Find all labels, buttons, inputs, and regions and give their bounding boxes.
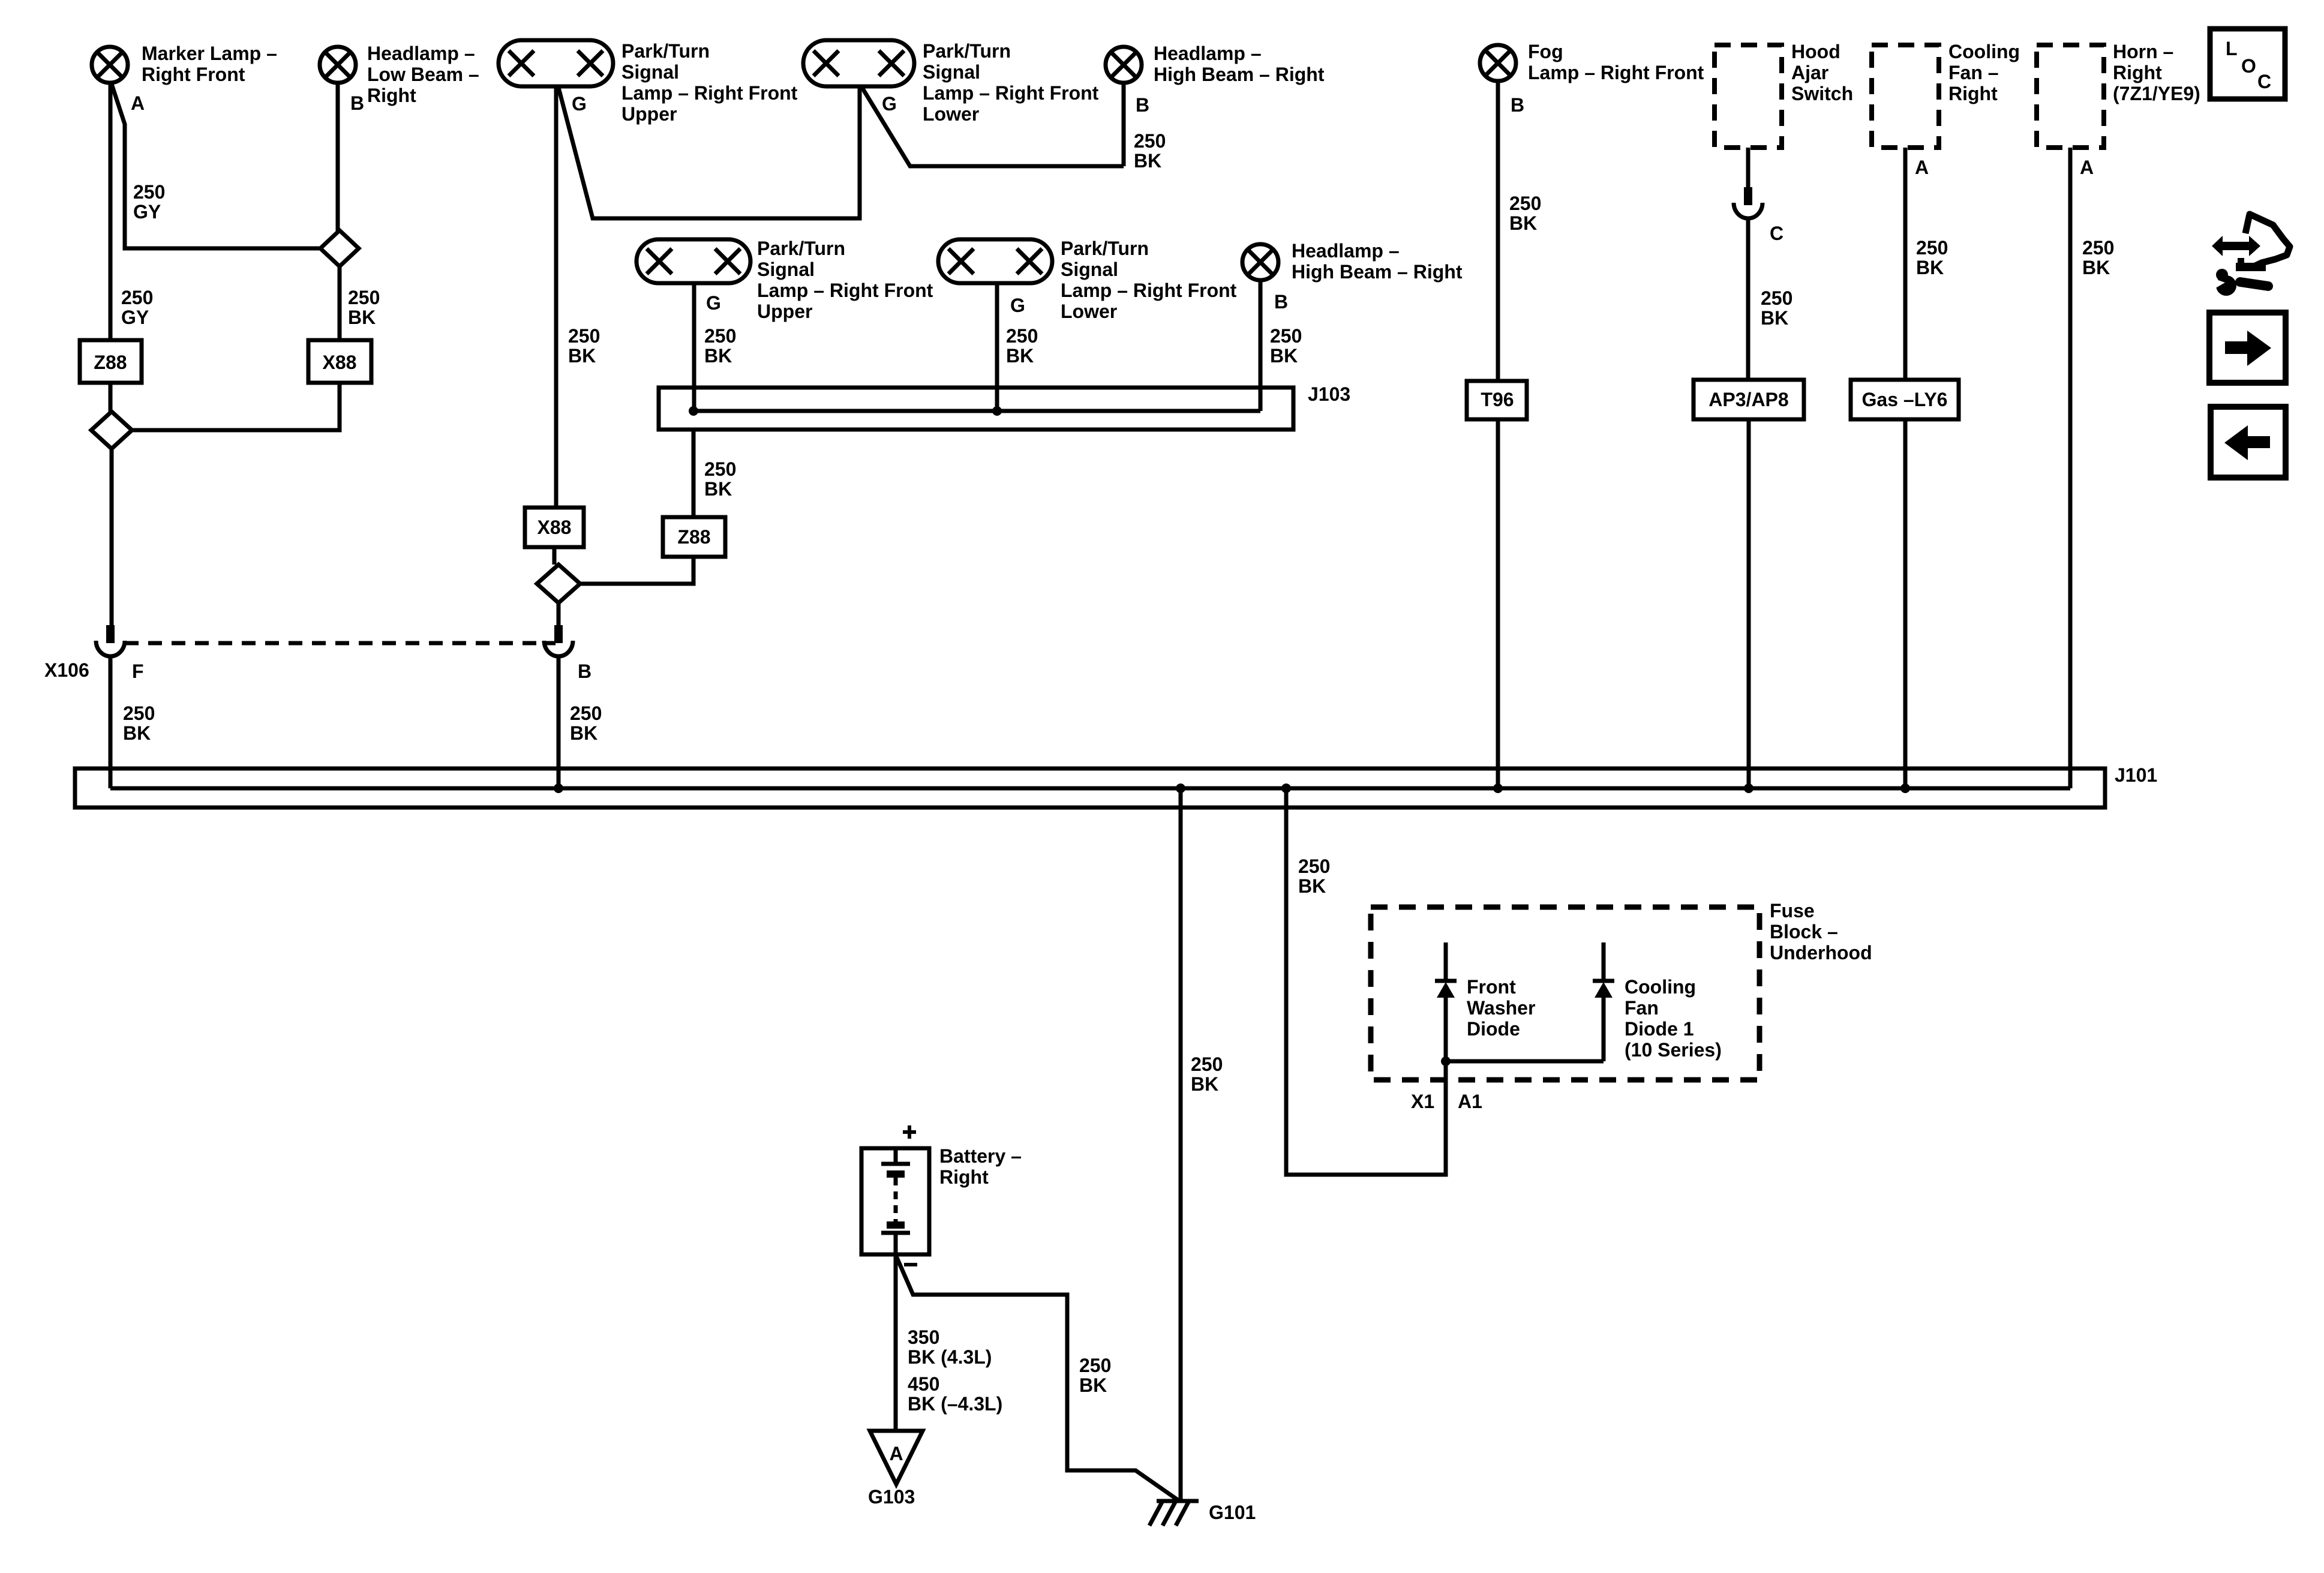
wire battery negative to G101 (250 BK)	[896, 1256, 1179, 1501]
junction at J103 and E6 wire	[689, 406, 698, 416]
wire C to AP3/AP8 (250 BK)	[1746, 217, 1750, 380]
svg-text:G103: G103	[868, 1486, 915, 1508]
svg-text:Signal: Signal	[621, 61, 679, 83]
svg-text:C: C	[1770, 223, 1783, 244]
junction J101/G101 wire	[1176, 784, 1185, 793]
svg-text:T96: T96	[1481, 389, 1514, 410]
svg-text:Lamp – Right Front: Lamp – Right Front	[757, 280, 933, 301]
svg-text:Z88: Z88	[94, 352, 127, 373]
svg-text:BK: BK	[704, 345, 732, 367]
svg-text:250: 250	[1191, 1053, 1223, 1075]
svg-text:Ajar: Ajar	[1791, 62, 1828, 83]
diode CR2 Cooling Fan Diode 1 (10 Series)	[1602, 942, 1606, 979]
svg-text:(10 Series): (10 Series)	[1625, 1039, 1722, 1061]
legend box with right arrow	[2209, 313, 2286, 383]
wire low beam B to diamond	[336, 83, 340, 231]
svg-text:J101: J101	[2115, 764, 2157, 786]
svg-text:BK: BK	[570, 722, 597, 744]
svg-text:BK: BK	[1761, 307, 1788, 329]
svg-text:A: A	[1915, 157, 1929, 178]
ground G101	[1157, 1499, 1199, 1503]
lamp E8 Headlamp High Beam - Right (row2)	[1242, 244, 1278, 280]
splice diamond S3	[537, 565, 580, 603]
svg-text:Upper: Upper	[621, 103, 677, 125]
svg-text:BK: BK	[2082, 257, 2110, 278]
svg-text:250: 250	[1509, 193, 1541, 214]
wire horn A to J101 (250 BK)	[2068, 148, 2073, 788]
wire Gas-LY6 to J101	[1903, 419, 1908, 788]
wire diamond S3 down to X106 pin B	[557, 603, 561, 625]
svg-text:Low Beam –: Low Beam –	[367, 64, 479, 85]
svg-text:Park/Turn: Park/Turn	[621, 40, 710, 62]
svg-text:Fan: Fan	[1625, 997, 1659, 1019]
svg-text:A: A	[131, 92, 145, 114]
wire J101 to fuse block X1-A1 (250 BK)	[1286, 788, 1446, 1175]
horn H1 Horn - Right (dashed)	[2037, 45, 2104, 148]
wire E6 G to J103 (250 BK)	[692, 283, 696, 411]
svg-text:C: C	[2257, 71, 2271, 92]
connector pin C	[1744, 187, 1752, 205]
svg-text:Block –: Block –	[1770, 921, 1838, 942]
svg-text:BK: BK	[123, 722, 151, 744]
battery G-BAT Battery - Right	[861, 1148, 929, 1254]
svg-text:Hood: Hood	[1791, 41, 1840, 62]
svg-text:Lamp – Right Front: Lamp – Right Front	[923, 82, 1099, 104]
svg-text:Marker Lamp –: Marker Lamp –	[142, 43, 277, 64]
svg-text:Right Front: Right Front	[142, 64, 245, 85]
svg-text:X88: X88	[323, 352, 357, 373]
legend LOC box	[2210, 29, 2285, 99]
svg-text:X88: X88	[538, 517, 572, 538]
svg-text:GY: GY	[121, 307, 149, 328]
svg-text:Switch: Switch	[1791, 83, 1853, 104]
wire X88 to diamond S3	[553, 547, 557, 565]
junction J101/T96 wire	[1493, 784, 1503, 793]
connector T96	[1467, 381, 1527, 419]
svg-text:Right: Right	[2113, 62, 2162, 83]
svg-text:B: B	[1136, 94, 1149, 116]
svg-text:250: 250	[704, 325, 736, 347]
wire X106 F to J101 (250 BK)	[109, 655, 113, 788]
svg-text:Right: Right	[367, 85, 416, 106]
motor M1 Cooling Fan - Right (dashed)	[1872, 45, 1939, 148]
svg-text:Gas –LY6: Gas –LY6	[1862, 389, 1948, 410]
svg-text:G: G	[882, 93, 897, 115]
svg-text:250: 250	[1270, 325, 1302, 347]
wire joining diodes inside fuse block	[1446, 1059, 1604, 1064]
fuse block - underhood (dashed box)	[1371, 907, 1759, 1080]
svg-text:250: 250	[348, 287, 380, 308]
splice diamond S2	[91, 412, 132, 449]
svg-text:Right: Right	[1948, 83, 1998, 104]
wire fog B to T96 (250 BK)	[1496, 81, 1500, 381]
svg-text:Battery –: Battery –	[939, 1145, 1022, 1167]
svg-text:Z88: Z88	[677, 526, 710, 548]
svg-text:Signal: Signal	[757, 259, 815, 280]
svg-text:250: 250	[570, 703, 602, 724]
svg-text:Headlamp –: Headlamp –	[1292, 240, 1400, 262]
svg-text:Park/Turn: Park/Turn	[1061, 238, 1149, 259]
svg-text:Park/Turn: Park/Turn	[923, 40, 1011, 62]
svg-text:350: 350	[908, 1326, 939, 1348]
connector X106 pin B	[554, 625, 563, 643]
svg-text:250: 250	[1134, 130, 1166, 152]
connector Z88 (second, under J103)	[663, 517, 725, 557]
wire diamond S3 to Z88 (second)	[580, 557, 693, 584]
svg-text:250: 250	[123, 703, 155, 724]
wire diamond to X88 (250 BK)	[338, 266, 342, 340]
svg-text:O: O	[2241, 55, 2256, 77]
wire AP3/AP8 to J101	[1747, 419, 1751, 788]
svg-text:B: B	[1511, 94, 1524, 116]
svg-text:BK: BK	[1916, 257, 1944, 278]
wire E3 G down to X88 (250 BK)	[554, 86, 559, 508]
legend service icon (hand with arrow and wrench)	[2212, 236, 2260, 256]
lamp E6 Park/Turn Signal Lamp - Right Front Upper (row2)	[636, 239, 750, 283]
connector X106 pin F	[106, 625, 115, 643]
svg-text:B: B	[578, 661, 591, 682]
svg-text:G101: G101	[1209, 1502, 1256, 1523]
svg-text:Upper: Upper	[757, 301, 812, 322]
wire cooling fan A to Gas-LY6 (250 BK)	[1903, 148, 1908, 380]
svg-text:X1: X1	[1411, 1091, 1434, 1112]
svg-text:BK (4.3L): BK (4.3L)	[908, 1346, 992, 1368]
wire E7 G to J103 (250 BK)	[995, 283, 999, 411]
svg-text:BK: BK	[1079, 1374, 1107, 1396]
svg-text:B: B	[350, 92, 364, 114]
svg-text:BK: BK	[1134, 150, 1161, 172]
wire J101 to G101 ground (250 BK)	[1179, 788, 1183, 1500]
svg-text:Fog: Fog	[1528, 41, 1563, 62]
svg-text:J103: J103	[1308, 383, 1350, 405]
svg-text:L: L	[2226, 38, 2238, 59]
svg-text:BK: BK	[348, 307, 376, 328]
svg-text:Signal: Signal	[1061, 259, 1118, 280]
junction of diode wires	[1441, 1056, 1451, 1066]
svg-text:Cooling: Cooling	[1948, 41, 2020, 62]
ground G103	[870, 1431, 923, 1484]
svg-text:250: 250	[1298, 855, 1330, 877]
wire Z88 up to J103 (250 BK)	[692, 430, 696, 517]
svg-text:250: 250	[1761, 287, 1792, 309]
svg-text:Lamp – Right Front: Lamp – Right Front	[1528, 62, 1704, 83]
wire diamond S2 to X88 bottom	[132, 383, 340, 430]
svg-text:250: 250	[1079, 1355, 1111, 1376]
svg-text:BK: BK	[1270, 345, 1298, 367]
svg-text:Diode: Diode	[1467, 1018, 1520, 1040]
wire hood ajar switch to connector C	[1746, 148, 1750, 187]
svg-text:GY: GY	[133, 201, 161, 223]
svg-text:BK: BK	[1509, 212, 1537, 234]
lamp E5 Headlamp High Beam - Right (row1)	[1106, 47, 1142, 83]
legend box with left arrow	[2211, 407, 2286, 478]
lamp E7 Park/Turn Signal Lamp - Right Front Lower (row2)	[938, 239, 1052, 283]
svg-text:Lower: Lower	[923, 103, 979, 125]
connector AP3/AP8	[1694, 380, 1804, 419]
svg-text:Signal: Signal	[923, 61, 980, 83]
svg-text:A: A	[889, 1443, 903, 1464]
svg-text:F: F	[132, 661, 144, 682]
junction J101/fuse block wire	[1281, 784, 1291, 793]
svg-text:G: G	[706, 292, 721, 314]
lamp E2 Headlamp Low Beam - Right	[320, 47, 356, 83]
svg-text:BK: BK	[704, 478, 732, 500]
wire marker lamp A to Z88 (250 GY)	[109, 83, 113, 340]
svg-text:450: 450	[908, 1373, 939, 1395]
svg-text:BK (–4.3L): BK (–4.3L)	[908, 1393, 1002, 1415]
svg-text:Washer: Washer	[1467, 997, 1535, 1019]
svg-text:BK: BK	[568, 345, 596, 367]
lamp E1 Marker Lamp - Right Front	[92, 47, 128, 83]
svg-text:250: 250	[133, 181, 165, 203]
wire Z88 to diamond S2	[109, 383, 113, 412]
connector Z88	[80, 340, 142, 383]
svg-text:BK: BK	[1006, 345, 1034, 367]
svg-text:G: G	[1010, 295, 1025, 316]
lamp E9 Fog Lamp - Right Front	[1480, 45, 1516, 81]
wire E4 G dogleg to high beam headlamp B (250 BK)	[862, 83, 1124, 166]
svg-text:Fan –: Fan –	[1948, 62, 1999, 83]
svg-text:X106: X106	[44, 659, 89, 681]
lamp E4 Park/Turn Signal Lamp - Right Front Lower (row1)	[803, 40, 914, 86]
svg-text:Right: Right	[939, 1166, 989, 1188]
junction J101/X106-B	[554, 784, 563, 793]
wire E3 G dogleg to E4 G	[559, 86, 860, 218]
svg-text:BK: BK	[1298, 875, 1326, 897]
wire marker lamp A dogleg to splice diamond (250 GY)	[112, 84, 320, 248]
svg-text:A1: A1	[1458, 1091, 1482, 1112]
junction J101/AP3 wire	[1744, 784, 1753, 793]
svg-text:Cooling: Cooling	[1625, 976, 1696, 998]
svg-text:Horn –: Horn –	[2113, 41, 2173, 62]
svg-text:High Beam – Right: High Beam – Right	[1292, 261, 1463, 283]
connector X106 dashed body line	[125, 641, 556, 646]
svg-text:250: 250	[704, 458, 736, 480]
svg-text:Lamp – Right Front: Lamp – Right Front	[621, 82, 798, 104]
svg-text:Diode 1: Diode 1	[1625, 1018, 1694, 1040]
lamp E3 Park/Turn Signal Lamp - Right Front Upper (row1)	[499, 40, 613, 86]
svg-text:(7Z1/YE9): (7Z1/YE9)	[2113, 83, 2200, 104]
splice diamond S1	[320, 230, 359, 266]
svg-text:B: B	[1274, 291, 1288, 313]
diode CR1 Front Washer Diode	[1444, 942, 1448, 979]
svg-text:AP3/AP8: AP3/AP8	[1709, 389, 1788, 410]
svg-text:BK: BK	[1191, 1073, 1218, 1095]
wire X106 B to J101 (250 BK)	[557, 655, 561, 788]
svg-text:Lamp – Right Front: Lamp – Right Front	[1061, 280, 1237, 301]
svg-text:Headlamp –: Headlamp –	[367, 43, 475, 64]
svg-text:Front: Front	[1467, 976, 1516, 998]
svg-text:250: 250	[568, 325, 600, 347]
svg-text:G: G	[572, 93, 587, 115]
wire battery negative to G103 (350/450 BK)	[894, 1254, 898, 1431]
svg-text:Fuse: Fuse	[1770, 900, 1815, 921]
connector Gas -LY6	[1851, 380, 1959, 419]
connector X88	[308, 340, 371, 383]
svg-text:250: 250	[121, 287, 153, 308]
svg-text:Lower: Lower	[1061, 301, 1117, 322]
connector X88 (second, under E3)	[525, 508, 584, 547]
splice pack J101	[75, 769, 2105, 807]
wire T96 to J101	[1496, 419, 1500, 788]
svg-text:250: 250	[1006, 325, 1038, 347]
junction J101/Gas-LY6 wire	[1900, 784, 1910, 793]
svg-text:Headlamp –: Headlamp –	[1154, 43, 1262, 64]
splice pack J103	[659, 388, 1293, 430]
switch S4 Hood Ajar Switch (dashed)	[1715, 45, 1782, 148]
svg-text:Park/Turn: Park/Turn	[757, 238, 845, 259]
wire E8 B to J103 (250 BK)	[1259, 280, 1263, 411]
svg-text:250: 250	[2082, 237, 2114, 259]
junction at J103 and E7 wire	[992, 406, 1002, 416]
wire diamond S2 down to X106 pin F	[110, 449, 114, 625]
svg-text:250: 250	[1916, 237, 1948, 259]
svg-text:Underhood: Underhood	[1770, 942, 1872, 963]
svg-text:A: A	[2080, 157, 2094, 178]
svg-text:High Beam – Right: High Beam – Right	[1154, 64, 1325, 85]
